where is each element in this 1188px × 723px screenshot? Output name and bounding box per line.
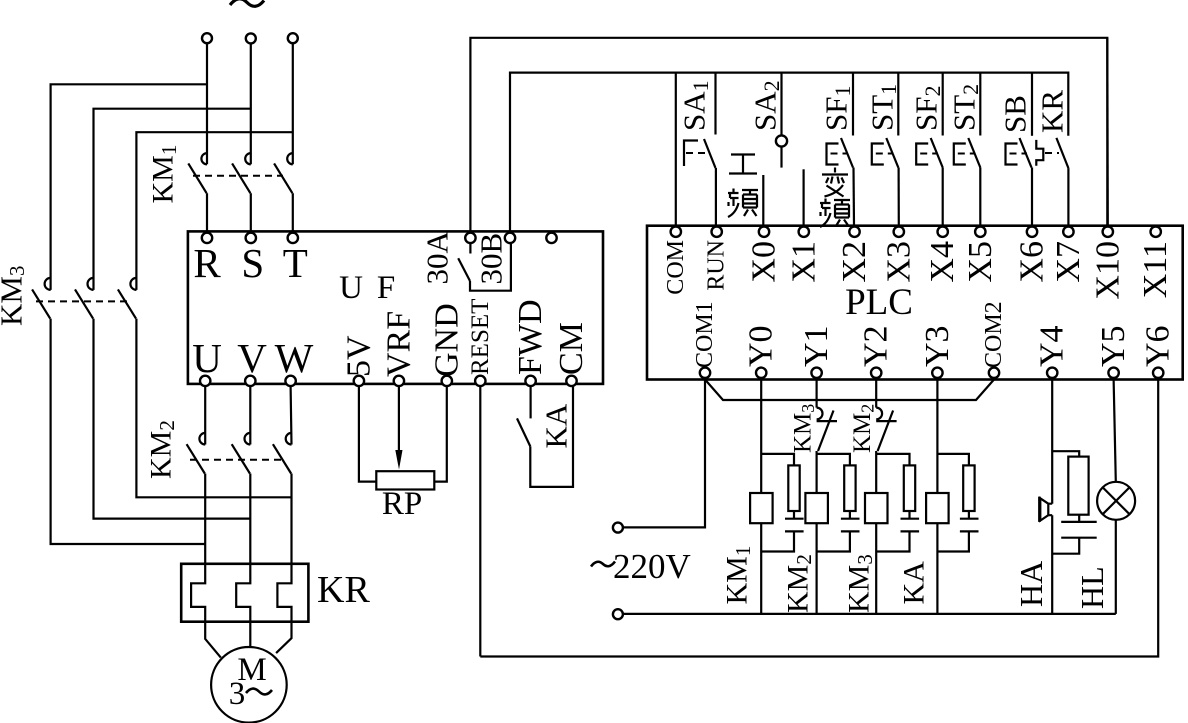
PLC box (647, 226, 1183, 380)
interlock KM3 NC contact (817, 408, 823, 420)
KM2 pole 2 blade (232, 444, 250, 473)
KM1 pole 1 blade (188, 163, 206, 193)
terminal S (246, 233, 256, 243)
SB blade (1020, 138, 1032, 168)
KM1 pole 1 fixed contact arc (201, 153, 207, 164)
KR heater element 3 (277, 564, 291, 622)
wire KM2 pole1 out (204, 474, 206, 564)
svg-text:PLC: PLC (845, 282, 913, 323)
terminal CM (566, 376, 576, 386)
svg-text:F: F (377, 270, 395, 306)
KM3 pole 2 blade (75, 289, 93, 318)
ST2 actuator (954, 144, 966, 165)
KM1 pole 3 blade (274, 163, 292, 193)
svg-text:30B: 30B (474, 233, 509, 285)
wire KM1 pole3 to T (292, 193, 294, 232)
terminal R (202, 233, 212, 243)
KR linkage dashed (1045, 152, 1059, 154)
KM3 linkage dashed (36, 300, 127, 302)
wire phase S down (250, 44, 252, 165)
SA1 top wire (714, 73, 716, 135)
KM2 snubber capacitor (841, 519, 860, 532)
wire phase R down (206, 44, 208, 165)
KM3 pole 1 fixed contact arc (45, 278, 51, 290)
terminal 30A (465, 233, 475, 243)
wire HA to rail (1051, 515, 1053, 614)
SA1 actuator bar (684, 141, 698, 167)
terminal GND (442, 376, 452, 386)
terminal Y1 (811, 368, 821, 378)
SEC_PLC (480, 379, 1158, 657)
terminal FWD (525, 376, 535, 386)
KM3 pole 3 fixed contact arc (130, 278, 136, 290)
SF2 top wire (942, 73, 944, 136)
terminal X10 (1103, 227, 1113, 237)
svg-text:X11: X11 (1137, 241, 1174, 298)
terminal U (200, 376, 210, 386)
wire KM2 NC to coil (875, 451, 877, 493)
terminal W (285, 376, 295, 386)
terminal X11 (1151, 227, 1161, 237)
wire coil KM2 to rail (815, 523, 817, 614)
wire coil KM3 to rail (875, 523, 877, 614)
ST2 blade (968, 138, 980, 168)
svg-text:Y4: Y4 (1034, 325, 1071, 367)
KM2 pole 3 blade (273, 444, 291, 473)
terminal Y3 (932, 368, 942, 378)
terminal Y5 (1108, 368, 1118, 378)
wire KR to motor right (276, 622, 291, 653)
svg-text:X7: X7 (1050, 241, 1087, 283)
terminal X5 (975, 227, 985, 237)
KM2 snubber branch (817, 454, 850, 552)
wire W down (290, 387, 293, 445)
supply terminal L1 (202, 33, 212, 43)
KM1 pole 2 fixed contact arc (245, 153, 251, 164)
svg-text:HL: HL (1074, 566, 1110, 609)
SF2 blade (931, 138, 943, 168)
wire Y2 down (875, 379, 877, 408)
ST1 top wire (897, 73, 899, 136)
KM2 pole 3 fixed contact arc (286, 433, 292, 445)
terminal X4 (938, 227, 948, 237)
KA snubber branch (937, 454, 969, 552)
wire KM3 pole2 out (94, 319, 251, 519)
svg-text:V: V (237, 335, 267, 381)
SB linkage dashed (1010, 153, 1028, 155)
terminal X3 (894, 227, 904, 237)
KM3 snubber capacitor (901, 519, 920, 532)
svg-text:COM1: COM1 (692, 301, 718, 368)
wire SA1 to RUN (715, 168, 717, 226)
KM3 snubber resistor (904, 465, 915, 511)
terminal VRF (394, 376, 404, 386)
KM1 pole 2 blade (232, 163, 250, 193)
wire V down (249, 387, 251, 445)
svg-text:KA: KA (539, 403, 574, 448)
ST1 linkage dashed (876, 153, 894, 155)
KA snubber resistor (963, 465, 974, 511)
KR actuator zigzag (1036, 140, 1043, 166)
wire bottom rail (623, 613, 1116, 615)
terminal Y6 (1153, 368, 1163, 378)
KM1 snubber branch (761, 454, 794, 552)
terminal V (245, 376, 255, 386)
svg-text:S: S (241, 240, 264, 286)
terminal spare (546, 233, 556, 243)
wire COM1 to supply (623, 379, 705, 528)
svg-text:COM: COM (663, 240, 689, 295)
wire KR to X7 (1067, 168, 1069, 226)
KR heater element 1 (191, 564, 205, 622)
svg-text:U: U (339, 270, 363, 306)
HA snubber capacitor (1061, 522, 1097, 538)
SF2 actuator (916, 144, 928, 165)
svg-text:W: W (275, 335, 314, 381)
SEC_RP_KA (145, 387, 371, 723)
relay contact KA (517, 418, 530, 446)
supply terminal N (613, 609, 623, 619)
wire SB to X6 (1031, 168, 1033, 227)
terminal Y0 (756, 368, 766, 378)
wiper arrowhead (395, 450, 402, 470)
svg-text:U: U (192, 335, 222, 381)
wire FWD down (529, 387, 531, 419)
SF1 blade (841, 138, 853, 168)
wire KA to CM (530, 387, 573, 487)
wire HL to rail (1115, 520, 1117, 614)
KM3 pole 1 blade (32, 289, 50, 318)
svg-text:Y1: Y1 (798, 325, 835, 367)
terminal 30B (505, 233, 515, 243)
svg-text:RUN: RUN (704, 240, 730, 291)
wire Y0 down (760, 379, 762, 493)
svg-text:Y2: Y2 (858, 325, 895, 367)
KM1 snubber resistor (788, 465, 799, 511)
KM2 snubber resistor (844, 465, 855, 511)
wire U down (204, 387, 206, 445)
SA1 linkage dashed (686, 152, 708, 154)
svg-text:X3: X3 (880, 241, 917, 283)
SF2 linkage dashed (920, 153, 938, 155)
wire RESET down to reset loop (479, 387, 481, 657)
wire tap R to bypass (51, 84, 207, 290)
terminal Y4 (1047, 368, 1057, 378)
terminal RESET (475, 376, 485, 386)
SB top wire (1031, 73, 1033, 136)
label gongpin (line-frequency) (729, 155, 757, 174)
wire KM3 pole3 out (136, 319, 291, 498)
SA2 top wire (780, 73, 782, 136)
HA snubber branch (1052, 451, 1079, 554)
svg-text:X1: X1 (785, 241, 822, 283)
wire Y1 down (815, 379, 817, 408)
interlock KM2 NC contact (876, 408, 882, 420)
wire X0 position (762, 175, 764, 226)
wire top bus 30A to X10 (470, 38, 1107, 232)
svg-text:X6: X6 (1014, 241, 1051, 283)
wire tap S to bypass (94, 109, 251, 290)
wire KM3 NC to coil (815, 451, 817, 493)
wire phase T down (292, 44, 294, 165)
motor M circle (211, 647, 287, 723)
inverter UF box (188, 231, 603, 384)
wire Y4 down (1051, 379, 1053, 504)
svg-text:VRF: VRF (380, 311, 417, 377)
KR blade (1056, 138, 1068, 168)
KM2 linkage dashed (190, 459, 282, 461)
KM1 snubber capacitor (785, 519, 804, 532)
wire SF1 to X2 (852, 168, 855, 227)
wire tap T to bypass (136, 132, 292, 290)
KM2 pole 2 fixed contact arc (245, 433, 251, 445)
svg-text:FWD: FWD (512, 299, 549, 375)
ST1 actuator (872, 144, 884, 165)
terminal RUN (712, 227, 722, 237)
KM3 pole 3 blade (118, 289, 136, 318)
terminal COM (671, 227, 681, 237)
KA snubber capacitor (960, 519, 979, 532)
terminal COM2 (989, 368, 999, 378)
KR heater element 2 (236, 564, 250, 622)
SEC_VFD (359, 387, 574, 657)
wire Y6 reset loop (480, 379, 1158, 657)
wire KM2 pole2 out (249, 474, 251, 564)
svg-text:KA: KA (898, 561, 931, 605)
wire ST2 to X5 (979, 168, 981, 227)
svg-text:220V: 220V (613, 547, 691, 586)
SF1 linkage dashed (831, 153, 849, 155)
wire KR to motor mid (249, 622, 251, 648)
wire KM1 pole1 to R (206, 193, 208, 232)
supply terminal L2 (246, 33, 256, 43)
wire Y3 down (936, 379, 938, 493)
KM3 snubber branch (876, 454, 909, 552)
KM1 pole 3 fixed contact arc (287, 153, 293, 164)
SF1 actuator (827, 144, 839, 165)
terminal X1 (799, 227, 809, 237)
svg-text:X10: X10 (1089, 241, 1126, 300)
wire KM1 pole2 to S (250, 193, 252, 232)
terminal T (288, 233, 298, 243)
svg-text:COM2: COM2 (981, 301, 1007, 368)
svg-text:RESET: RESET (467, 299, 494, 375)
ST1 blade (886, 138, 898, 168)
wire Y5 down (1114, 379, 1116, 482)
KM2 pole 1 fixed contact arc (199, 433, 205, 445)
label bianpin (variable-frequency) char bian (822, 168, 848, 197)
wire COM up to bus (675, 73, 677, 226)
wire ST1 to X3 (897, 168, 899, 227)
svg-text:3: 3 (229, 676, 246, 712)
svg-text:CM: CM (553, 322, 590, 375)
svg-text:GND: GND (428, 303, 465, 377)
wire SF2 to X4 (942, 168, 944, 227)
wire coil KM1 to rail (760, 523, 762, 614)
terminal X6 (1027, 227, 1037, 237)
coil KM2 (805, 493, 828, 523)
KM2 pole 1 blade (187, 444, 205, 473)
HA snubber resistor (1068, 457, 1088, 515)
SA2 pivot circle (776, 135, 787, 146)
wire X1 position (802, 169, 804, 226)
SEC_KM2_KR_MOTOR (470, 38, 1107, 232)
wire bus 30B common (510, 73, 1068, 233)
terminal 5V (354, 376, 364, 386)
fault relay contact 30A-30B (469, 244, 471, 254)
terminal X0 (759, 227, 769, 237)
potentiometer RP body (376, 471, 434, 489)
coil KM3 (865, 493, 888, 523)
wire 5V down (359, 387, 376, 482)
ST2 linkage dashed (958, 153, 976, 155)
SA1 blade (704, 139, 716, 168)
coil KA (926, 493, 949, 523)
svg-text:Y3: Y3 (919, 325, 956, 367)
label tilde (591, 562, 615, 567)
svg-text:KM3: KM3 (0, 266, 29, 326)
svg-text:Y5: Y5 (1095, 325, 1132, 367)
svg-text:KR: KR (317, 569, 370, 611)
supply terminal L (613, 523, 623, 533)
lamp HL (1097, 482, 1135, 520)
wire VRF wiper (398, 387, 400, 452)
wire KM3 pole1 out (51, 319, 206, 544)
svg-text:Y0: Y0 (743, 325, 780, 367)
KM3 pole 2 fixed contact arc (88, 278, 94, 290)
wire KR to motor left (205, 622, 221, 658)
svg-text:X0: X0 (746, 241, 783, 283)
svg-text:Y6: Y6 (1140, 325, 1177, 367)
SEC_SWITCHES (647, 226, 1183, 380)
terminal X2 (849, 227, 859, 237)
SA2 blade stub (780, 147, 782, 168)
wire coil KA to rail (936, 523, 938, 614)
wire X10 down (1106, 38, 1109, 226)
svg-text:KR: KR (1035, 90, 1070, 133)
ST2 top wire (979, 73, 981, 136)
svg-text:X5: X5 (962, 241, 999, 283)
SEC_KM3 (147, 145, 293, 233)
svg-text:30A: 30A (420, 231, 455, 285)
SB actuator (1006, 144, 1018, 165)
motor label tilde (246, 689, 272, 695)
wire GND down (434, 387, 447, 482)
svg-text:X2: X2 (836, 241, 873, 283)
terminal X7 (1063, 227, 1073, 237)
buzzer HA (1040, 498, 1048, 520)
svg-text:5V: 5V (340, 335, 377, 377)
thermal relay KR box (181, 564, 308, 622)
terminal Y2 (871, 368, 881, 378)
svg-text:SB: SB (998, 95, 1033, 133)
wire COM1-COM2 link (705, 380, 994, 401)
svg-text:T: T (283, 240, 308, 286)
AC supply tilde (230, 0, 264, 6)
svg-text:HA: HA (1013, 561, 1049, 607)
SEC_KM1 (188, 231, 603, 387)
wire KM2 pole3 out (290, 474, 292, 564)
svg-text:RP: RP (382, 486, 422, 522)
KM1 linkage dashed (193, 175, 283, 177)
svg-text:X4: X4 (924, 241, 961, 283)
svg-text:R: R (193, 240, 221, 286)
terminal COM1 (700, 368, 710, 378)
supply terminal L3 (288, 33, 298, 43)
coil KM1 (750, 493, 773, 523)
SF1 top wire (852, 73, 854, 136)
